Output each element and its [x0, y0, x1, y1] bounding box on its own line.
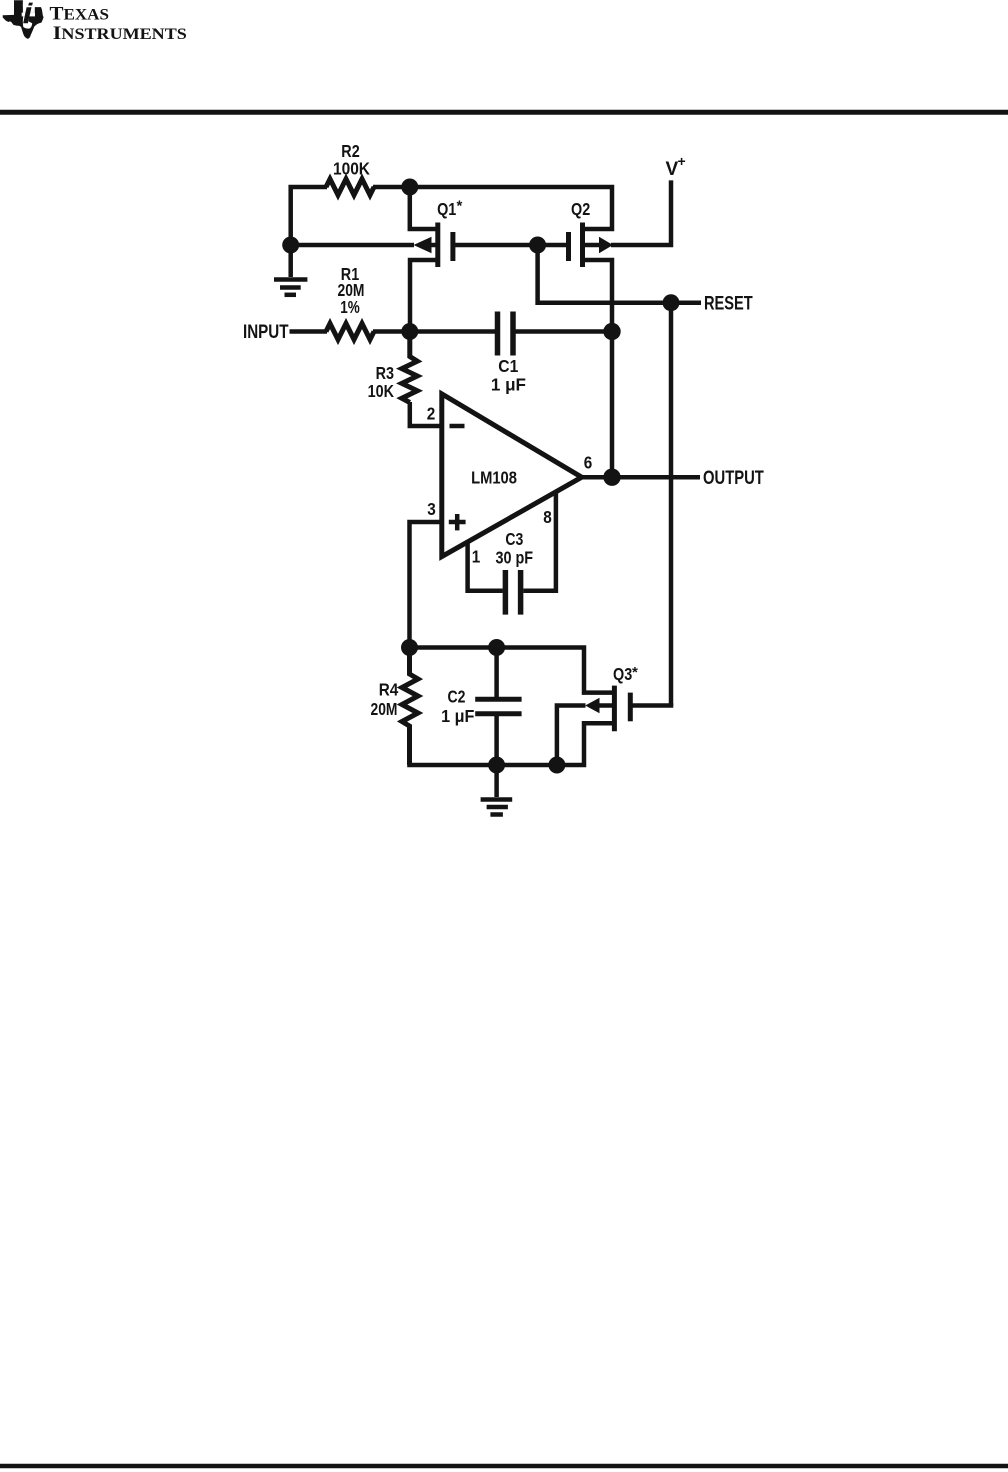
plus sign — [449, 514, 466, 530]
wire: Q1 gate to gate junction — [453, 243, 538, 248]
svg-text:1%: 1% — [340, 298, 359, 317]
svg-text:R3: R3 — [376, 364, 394, 384]
wire: Q2 gate — [538, 243, 569, 248]
bottom rule — [0, 1464, 1008, 1469]
wire: Q3 gate to RESET column — [630, 703, 673, 708]
ground (bottom) — [481, 765, 513, 815]
svg-text:INSTRUMENTS: INSTRUMENTS — [53, 23, 187, 44]
svg-text:*: * — [457, 198, 463, 215]
resistor R1 — [326, 324, 374, 340]
capacitor C3 — [505, 570, 520, 615]
wire: left branch from top wire down to ground node — [291, 187, 327, 245]
node: R2 / Q1 drain junction — [401, 179, 418, 196]
resistor R2 — [326, 179, 374, 195]
node: input summing junction — [401, 323, 418, 340]
svg-text:Q3: Q3 — [613, 665, 632, 685]
svg-text:30 pF: 30 pF — [496, 548, 534, 568]
wire: INPUT lead — [290, 329, 328, 334]
wire: Q3 substrate arrow branch — [557, 706, 586, 766]
minus sign — [450, 424, 465, 429]
wire: gate junction down to RESET line — [538, 245, 701, 303]
ground (upper left) — [274, 245, 307, 295]
svg-text:*: * — [632, 664, 638, 681]
wire: RESET down to Q3 gate — [669, 303, 674, 706]
svg-text:C3: C3 — [505, 529, 523, 549]
node: R4 top junction — [401, 639, 418, 656]
svg-text:TEXAS: TEXAS — [50, 4, 110, 25]
node: C2 top junction — [488, 639, 505, 656]
resistor R3 — [402, 332, 418, 403]
capacitor C2 — [475, 648, 521, 766]
svg-text:LM108: LM108 — [471, 468, 517, 488]
svg-text:10K: 10K — [368, 382, 395, 402]
svg-text:8: 8 — [543, 507, 552, 527]
svg-text:1 μF: 1 μF — [441, 706, 474, 726]
wire: down to output node — [610, 332, 615, 478]
wire: pin 8 to C3 — [523, 491, 556, 591]
node: ground junction (upper left) — [282, 237, 299, 254]
svg-text:RESET: RESET — [704, 293, 753, 314]
svg-text:1: 1 — [472, 546, 481, 566]
TI logo text TEXAS INSTRUMENTS — [50, 4, 187, 44]
svg-text:1 μF: 1 μF — [491, 374, 526, 395]
svg-text:+: + — [678, 153, 686, 169]
wire: R1 to C1 — [373, 329, 495, 334]
wire: top net from R2 to Q2 drain — [373, 187, 612, 229]
wire: C3 to pin 1 — [468, 542, 503, 591]
wire: lower junction rail to Q3 drain — [410, 648, 615, 693]
node: Q3 substrate junction — [548, 757, 565, 774]
wire: Q1 drain stub — [410, 187, 438, 229]
svg-text:6: 6 — [584, 452, 593, 472]
wire: C1 to Q2 source column — [516, 329, 613, 334]
top rule — [0, 110, 1008, 115]
capacitor C1 — [498, 312, 514, 356]
wire: output — [582, 475, 700, 480]
svg-text:100K: 100K — [333, 158, 370, 178]
node: Q1/Q2 gate junction — [529, 237, 546, 254]
svg-text:20M: 20M — [371, 699, 398, 719]
transistor Q2 — [569, 223, 614, 332]
svg-text:Q2: Q2 — [571, 200, 590, 220]
svg-text:3: 3 — [427, 499, 436, 519]
node: output junction — [603, 469, 620, 486]
svg-text:INPUT: INPUT — [243, 320, 289, 342]
node: C2 bottom / ground junction — [488, 757, 505, 774]
op-amp U1 LM108 — [442, 394, 582, 557]
svg-text:Q1: Q1 — [437, 200, 456, 220]
wire: R3 to op-amp inverting input — [410, 402, 442, 426]
transistor Q1 — [410, 223, 453, 332]
wire: op-amp non-inverting input down to R4 node — [410, 522, 442, 648]
svg-text:C2: C2 — [448, 687, 466, 707]
svg-text:2: 2 — [427, 403, 436, 423]
TI logo mark (Texas outline with ti) — [3, 0, 44, 38]
wire: bottom rail to Q3 source — [407, 723, 614, 765]
node: C1 / Q2 junction — [603, 323, 620, 340]
wire: ground node to Q1 source arrow — [291, 243, 414, 248]
node: RESET junction — [663, 294, 680, 311]
wire: Q2 source to V+ — [611, 180, 671, 245]
resistor R4 — [402, 648, 418, 766]
svg-text:OUTPUT: OUTPUT — [703, 467, 764, 488]
svg-text:R4: R4 — [379, 679, 399, 699]
transistor Q3 — [585, 686, 630, 732]
